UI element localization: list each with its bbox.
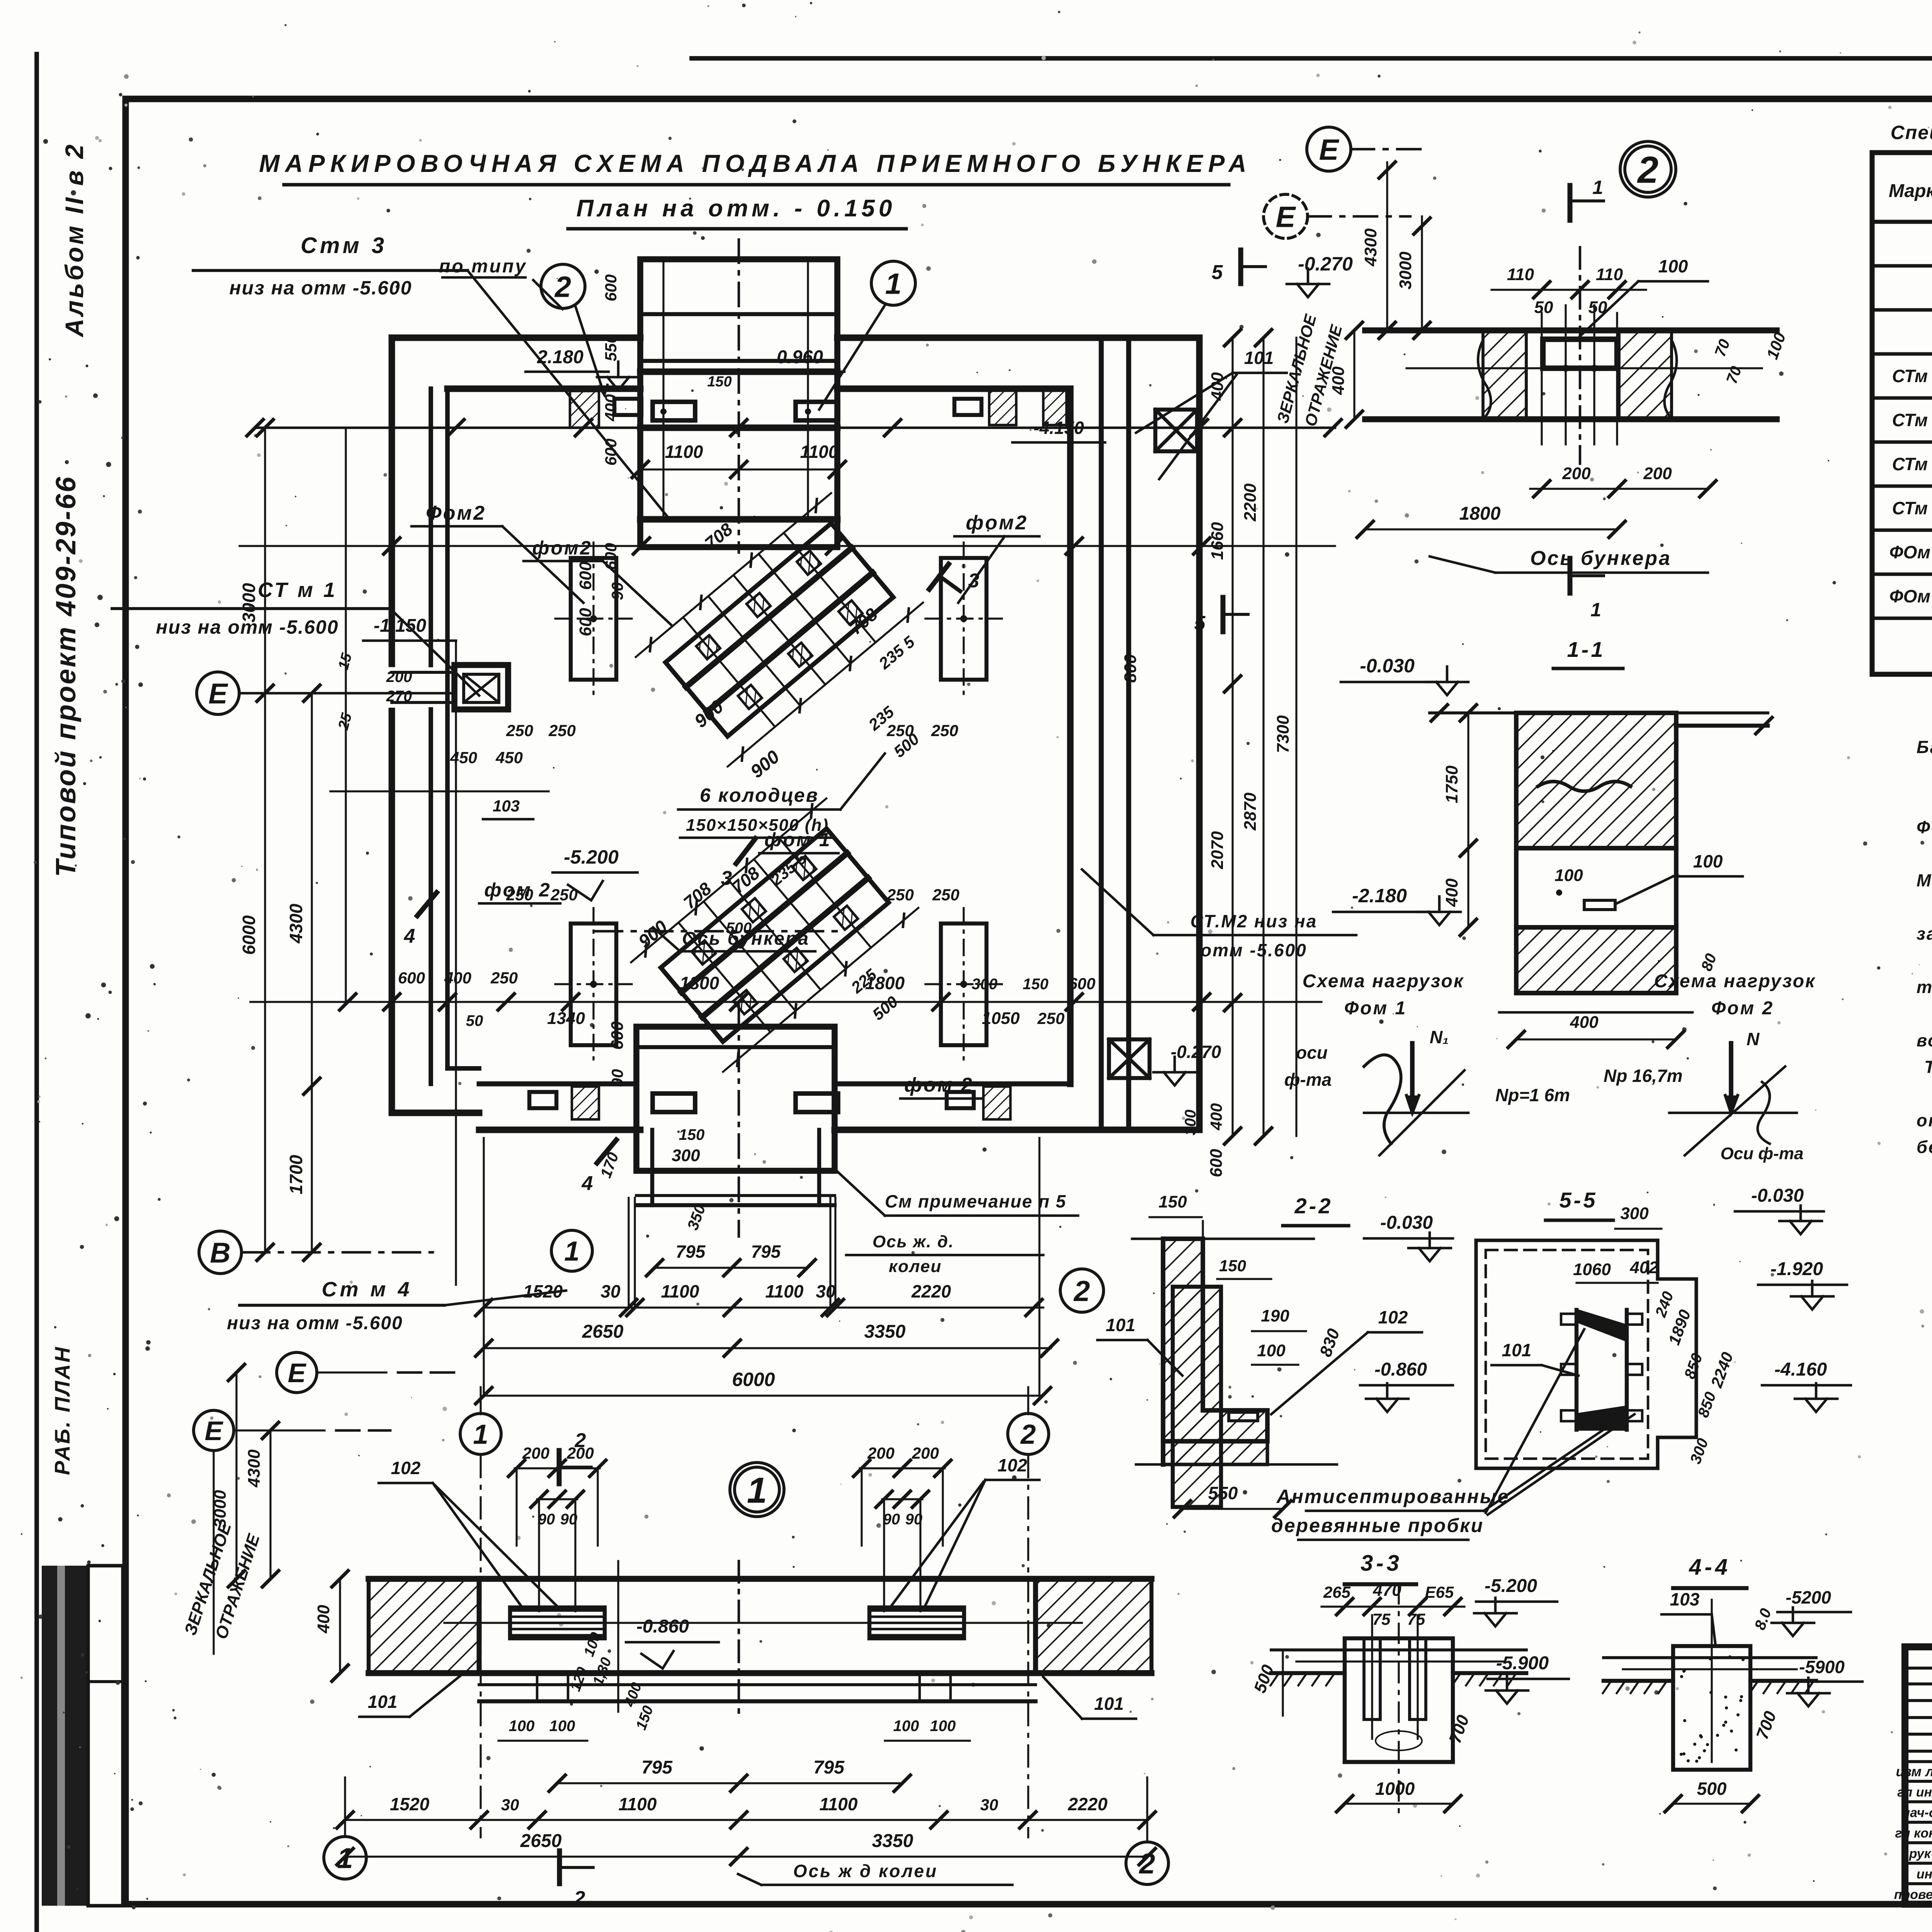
svg-text:СТм 3: СТм 3 — [1892, 454, 1932, 474]
svg-text:1: 1 — [337, 1842, 353, 1874]
svg-text:Фом2: Фом2 — [426, 502, 486, 524]
svg-text:рук гр: рук гр — [1909, 1847, 1932, 1861]
svg-text:101: 101 — [1502, 1340, 1532, 1360]
svg-text:1: 1 — [473, 1420, 488, 1450]
svg-text:1: 1 — [885, 267, 901, 300]
svg-text:250: 250 — [931, 721, 958, 740]
svg-text:250: 250 — [1037, 1009, 1065, 1027]
svg-text:250: 250 — [548, 721, 576, 740]
svg-text:-5.200: -5.200 — [564, 846, 619, 868]
svg-text:5: 5 — [1212, 261, 1223, 284]
svg-text:1060: 1060 — [1573, 1260, 1611, 1279]
svg-text:2: 2 — [1073, 1275, 1090, 1307]
svg-text:100: 100 — [1554, 866, 1583, 885]
svg-text:СТм 1: СТм 1 — [1892, 366, 1932, 386]
svg-text:1100: 1100 — [619, 1794, 657, 1814]
svg-text:30: 30 — [600, 1281, 621, 1301]
svg-text:1100: 1100 — [765, 1281, 804, 1301]
svg-text:250: 250 — [550, 886, 578, 904]
svg-text:Ось ж д колеи: Ось ж д колеи — [793, 1861, 938, 1881]
svg-text:Балок см. лист КЖ-4.: Балок см. лист КЖ-4. — [1917, 737, 1932, 757]
svg-text:Схема нагрузок: Схема нагрузок — [1654, 971, 1816, 992]
svg-text:400: 400 — [1207, 1103, 1225, 1131]
svg-text:2.180: 2.180 — [537, 347, 583, 367]
svg-text:Спецификация элементов к ма: Спецификация элементов к маркировочной с… — [1891, 122, 1932, 143]
svg-text:2220: 2220 — [911, 1281, 951, 1301]
svg-text:Ось бункера: Ось бункера — [1530, 547, 1672, 570]
svg-text:250: 250 — [886, 886, 914, 904]
svg-text:103: 103 — [1670, 1589, 1700, 1609]
svg-text:2: 2 — [1637, 149, 1658, 191]
svg-text:200: 200 — [867, 1444, 895, 1462]
svg-text:300: 300 — [672, 1146, 700, 1165]
svg-text:90: 90 — [608, 582, 626, 600]
svg-text:500: 500 — [1697, 1779, 1727, 1799]
svg-text:4300: 4300 — [1361, 228, 1380, 267]
svg-text:СТм 2: СТм 2 — [1892, 410, 1932, 430]
svg-text:Альбом II в 2: Альбом II в 2 — [60, 142, 88, 338]
svg-text:-5.900: -5.900 — [1496, 1653, 1549, 1673]
svg-text:600: 600 — [576, 608, 595, 636]
svg-text:600: 600 — [576, 561, 595, 590]
svg-text:90: 90 — [608, 1069, 626, 1087]
svg-text:Ст м 4: Ст м 4 — [322, 1278, 413, 1301]
svg-text:2: 2 — [1138, 1848, 1155, 1880]
svg-text:3: 3 — [968, 570, 980, 592]
svg-text:фом 2: фом 2 — [904, 1074, 974, 1096]
svg-text:Е: Е — [205, 1416, 224, 1446]
svg-text:ФОм 2: ФОм 2 — [1889, 586, 1932, 606]
svg-text:нач-отд: нач-отд — [1902, 1806, 1932, 1820]
svg-text:1700: 1700 — [286, 1155, 306, 1194]
svg-text:600: 600 — [608, 1021, 627, 1050]
svg-text:Фом 1 и Фом 2 включены: Фом 1 и Фом 2 включены в спецификацию ча… — [1917, 817, 1932, 837]
svg-text:402: 402 — [1629, 1258, 1658, 1277]
svg-text:500: 500 — [726, 920, 752, 937]
svg-text:300: 300 — [1620, 1204, 1649, 1223]
svg-text:6 колодцев: 6 колодцев — [700, 784, 819, 806]
svg-text:4300: 4300 — [286, 903, 306, 944]
svg-text:Е: Е — [208, 678, 228, 710]
svg-text:за два раза по холод: за два раза по холодной битумной грунтов… — [1917, 924, 1932, 944]
svg-text:4300: 4300 — [245, 1449, 264, 1488]
svg-text:400: 400 — [602, 394, 620, 422]
svg-text:низ на отм -5.600: низ на отм -5.600 — [227, 1313, 403, 1333]
svg-text:-0.030: -0.030 — [1751, 1185, 1804, 1206]
svg-text:Оси ф-та: Оси ф-та — [1721, 1144, 1804, 1163]
svg-text:Е65: Е65 — [1425, 1583, 1454, 1601]
svg-text:1100: 1100 — [665, 442, 703, 462]
svg-text:150×150×500 (h): 150×150×500 (h) — [686, 816, 829, 835]
svg-text:200: 200 — [1562, 464, 1591, 483]
svg-text:тумом.: тумом. — [1917, 977, 1932, 997]
svg-text:2070: 2070 — [1208, 831, 1227, 869]
svg-text:-2.180: -2.180 — [1352, 885, 1407, 906]
svg-text:-5.200: -5.200 — [1485, 1576, 1537, 1596]
svg-text:100: 100 — [1257, 1341, 1286, 1360]
svg-text:М50 толщиной 100 мм.: М50 толщиной 100 мм. — [1917, 871, 1932, 890]
svg-text:ф-та: ф-та — [1284, 1070, 1332, 1090]
svg-text:795: 795 — [751, 1242, 781, 1262]
svg-text:30: 30 — [980, 1796, 998, 1814]
svg-text:250: 250 — [490, 969, 518, 987]
svg-text:1050: 1050 — [982, 1009, 1020, 1028]
svg-text:4: 4 — [404, 925, 415, 947]
svg-text:3: 3 — [721, 867, 732, 889]
svg-text:600: 600 — [398, 969, 425, 987]
svg-text:250: 250 — [886, 721, 914, 740]
svg-text:1: 1 — [1592, 177, 1603, 198]
svg-text:Антисептированные: Антисептированные — [1276, 1486, 1510, 1507]
svg-text:795: 795 — [813, 1757, 845, 1778]
svg-text:100: 100 — [1658, 256, 1688, 276]
svg-text:2: 2 — [554, 270, 571, 303]
svg-text:150: 150 — [1023, 976, 1049, 993]
svg-text:1100: 1100 — [800, 442, 838, 462]
svg-text:100: 100 — [930, 1718, 956, 1735]
svg-text:-4.150: -4.150 — [1034, 418, 1084, 438]
svg-text:План на отм. - 0.150: План на отм. - 0.150 — [577, 195, 896, 222]
svg-text:300: 300 — [972, 976, 998, 993]
svg-text:2650: 2650 — [520, 1831, 562, 1851]
svg-text:470: 470 — [1372, 1581, 1401, 1600]
svg-text:450: 450 — [450, 748, 477, 767]
svg-text:-0.270: -0.270 — [1171, 1042, 1221, 1062]
svg-text:5: 5 — [1194, 612, 1206, 634]
svg-text:колеи: колеи — [889, 1257, 942, 1276]
svg-text:200: 200 — [386, 668, 412, 685]
svg-text:Е: Е — [288, 1358, 307, 1388]
svg-text:110: 110 — [1596, 265, 1623, 284]
svg-text:фом2: фом2 — [532, 537, 592, 559]
svg-text:200: 200 — [522, 1444, 549, 1462]
svg-text:См примечание п 5: См примечание п 5 — [885, 1191, 1066, 1211]
svg-text:Фом 1: Фом 1 — [1344, 998, 1407, 1019]
svg-text:-0.270: -0.270 — [1298, 253, 1353, 275]
svg-text:восприятие горизонтальных: восприятие горизонтальных нагрузок, дейс… — [1917, 1031, 1932, 1050]
svg-text:СТм 4: СТм 4 — [1892, 498, 1932, 518]
svg-text:600: 600 — [602, 543, 620, 570]
svg-text:50: 50 — [466, 1012, 483, 1029]
svg-text:1800: 1800 — [680, 973, 719, 993]
svg-text:800: 800 — [1121, 654, 1140, 683]
svg-text:100: 100 — [1693, 851, 1723, 871]
svg-text:N₁: N₁ — [1430, 1027, 1449, 1047]
svg-text:фом2: фом2 — [966, 512, 1028, 534]
svg-text:270: 270 — [386, 688, 412, 705]
svg-text:795: 795 — [641, 1757, 673, 1778]
svg-text:1800: 1800 — [1459, 503, 1501, 524]
svg-text:600: 600 — [1068, 975, 1095, 993]
svg-text:101: 101 — [1094, 1694, 1124, 1714]
svg-text:1660: 1660 — [1208, 522, 1227, 560]
svg-text:2-2: 2-2 — [1294, 1194, 1333, 1218]
svg-text:0.960: 0.960 — [777, 347, 823, 367]
svg-text:отм -5.600: отм -5.600 — [1201, 940, 1307, 960]
svg-text:Стм 3: Стм 3 — [301, 233, 387, 258]
svg-text:450: 450 — [495, 748, 523, 767]
svg-text:1520: 1520 — [390, 1794, 430, 1814]
svg-text:103: 103 — [493, 797, 520, 815]
svg-text:100: 100 — [893, 1718, 919, 1735]
svg-text:1000: 1000 — [1375, 1779, 1415, 1799]
svg-text:2: 2 — [574, 1887, 585, 1910]
svg-text:100: 100 — [509, 1718, 535, 1735]
svg-text:7300: 7300 — [1274, 715, 1293, 753]
svg-text:265: 265 — [1323, 1583, 1351, 1601]
svg-text:75: 75 — [1407, 1610, 1425, 1628]
svg-text:1100: 1100 — [820, 1794, 858, 1814]
svg-text:90: 90 — [883, 1511, 900, 1528]
svg-text:102: 102 — [1378, 1307, 1408, 1327]
svg-text:СТ м 1: СТ м 1 — [258, 578, 337, 602]
svg-text:100: 100 — [549, 1718, 575, 1735]
svg-text:бетоном пола 70%: бетоном пола 70% проектной прочности. — [1917, 1137, 1932, 1157]
svg-text:инж: инж — [1917, 1867, 1932, 1882]
svg-text:1750: 1750 — [1442, 765, 1461, 803]
svg-text:400: 400 — [444, 969, 471, 987]
svg-text:110: 110 — [1507, 265, 1534, 284]
svg-text:150: 150 — [1158, 1192, 1187, 1211]
svg-text:200: 200 — [1643, 464, 1672, 483]
svg-text:795: 795 — [676, 1242, 706, 1262]
svg-text:-0.860: -0.860 — [1374, 1359, 1427, 1380]
svg-text:3350: 3350 — [864, 1321, 906, 1342]
svg-text:Nр 16,7т: Nр 16,7т — [1604, 1066, 1683, 1086]
svg-text:50: 50 — [1534, 298, 1553, 317]
svg-text:Nр=1 6т: Nр=1 6т — [1495, 1085, 1570, 1105]
svg-text:оси: оси — [1296, 1043, 1328, 1063]
svg-text:Е: Е — [1319, 133, 1340, 166]
svg-text:400: 400 — [1570, 1013, 1599, 1032]
svg-text:изм лист: изм лист — [1896, 1764, 1932, 1779]
svg-text:550: 550 — [602, 334, 620, 361]
svg-text:101: 101 — [1244, 348, 1274, 368]
svg-text:101: 101 — [368, 1692, 398, 1712]
svg-text:-5200: -5200 — [1786, 1587, 1831, 1607]
svg-text:Е: Е — [1276, 201, 1296, 233]
svg-text:СТ.М2 низ на: СТ.М2 низ на — [1190, 911, 1318, 931]
svg-text:окончания замоноличивания: окончания замоноличивания покрытия и пос… — [1917, 1111, 1932, 1130]
svg-text:250: 250 — [506, 886, 533, 904]
svg-text:1340: 1340 — [547, 1009, 585, 1028]
svg-text:В: В — [210, 1237, 230, 1269]
svg-text:250: 250 — [932, 886, 959, 904]
svg-text:Типовой проект 409-29-66: Типовой проект 409-29-66 — [51, 475, 82, 877]
svg-text:400: 400 — [1442, 878, 1461, 907]
svg-text:-1.150: -1.150 — [374, 616, 426, 636]
svg-text:102: 102 — [391, 1458, 421, 1478]
svg-text:Схема нагрузок: Схема нагрузок — [1303, 971, 1464, 992]
svg-text:5-5: 5-5 — [1560, 1188, 1598, 1212]
svg-text:150: 150 — [1219, 1257, 1246, 1275]
svg-text:-0.860: -0.860 — [636, 1616, 689, 1637]
svg-text:2: 2 — [1020, 1420, 1036, 1450]
svg-text:ФОм 1: ФОм 1 — [1889, 542, 1932, 562]
svg-text:N: N — [1747, 1029, 1760, 1049]
svg-text:200: 200 — [566, 1444, 594, 1462]
svg-text:1100: 1100 — [661, 1281, 699, 1301]
svg-text:30: 30 — [816, 1281, 836, 1301]
svg-text:РАБ. ПЛАН: РАБ. ПЛАН — [50, 1345, 74, 1475]
svg-text:по типу: по типу — [439, 256, 527, 277]
svg-text:4-4: 4-4 — [1689, 1554, 1731, 1580]
svg-text:3000: 3000 — [1396, 252, 1415, 289]
svg-text:-5900: -5900 — [1799, 1657, 1845, 1677]
svg-text:4: 4 — [582, 1172, 593, 1195]
svg-text:низ на отм -5.600: низ на отм -5.600 — [229, 277, 412, 299]
svg-text:низ на отм -5.600: низ на отм -5.600 — [156, 616, 338, 638]
svg-text:Ось ж. д.: Ось ж. д. — [872, 1232, 954, 1251]
svg-text:75: 75 — [1372, 1610, 1391, 1628]
svg-text:-4.160: -4.160 — [1774, 1359, 1827, 1380]
svg-text:2220: 2220 — [1068, 1794, 1108, 1814]
svg-text:1: 1 — [747, 1470, 767, 1510]
svg-text:деревянные пробки: деревянные пробки — [1271, 1515, 1484, 1536]
svg-text:300: 300 — [1182, 1110, 1199, 1136]
svg-text:3-3: 3-3 — [1361, 1551, 1402, 1576]
svg-text:1-1: 1-1 — [1567, 637, 1605, 662]
svg-text:-0.030: -0.030 — [1380, 1213, 1433, 1233]
svg-text:250: 250 — [506, 721, 533, 740]
svg-text:90: 90 — [538, 1511, 555, 1528]
svg-text:Марка: Марка — [1889, 181, 1932, 201]
svg-text:6000: 6000 — [732, 1369, 775, 1390]
svg-text:гл инж пр: гл инж пр — [1897, 1785, 1932, 1800]
svg-text:проверила: проверила — [1894, 1888, 1932, 1902]
svg-text:гл констр: гл констр — [1895, 1826, 1932, 1841]
svg-text:200: 200 — [912, 1444, 939, 1462]
svg-text:3350: 3350 — [872, 1831, 913, 1851]
svg-text:6000: 6000 — [239, 915, 259, 955]
svg-text:101: 101 — [1106, 1315, 1136, 1335]
svg-text:2200: 2200 — [1241, 483, 1260, 522]
svg-text:150: 150 — [707, 374, 731, 390]
svg-text:400: 400 — [314, 1605, 333, 1634]
svg-text:МАРКИРОВОЧНАЯ СХЕМА ПОДВАЛ: МАРКИРОВОЧНАЯ СХЕМА ПОДВАЛА ПРИЕМНОГО БУ… — [259, 150, 1252, 177]
svg-text:2870: 2870 — [1241, 793, 1260, 831]
svg-text:150: 150 — [679, 1126, 705, 1143]
svg-text:-0.030: -0.030 — [1360, 655, 1415, 677]
svg-text:600: 600 — [602, 439, 620, 466]
svg-text:600: 600 — [1207, 1149, 1226, 1177]
svg-text:3000: 3000 — [211, 1490, 230, 1528]
svg-text:1: 1 — [564, 1236, 580, 1267]
svg-text:2650: 2650 — [582, 1321, 624, 1342]
svg-text:30: 30 — [501, 1796, 519, 1814]
svg-text:-1.920: -1.920 — [1770, 1259, 1823, 1279]
svg-text:Толщину пола приня: Толщину пола принять 150 мм из бетона м2… — [1924, 1057, 1932, 1077]
svg-text:190: 190 — [1261, 1306, 1289, 1325]
svg-text:102: 102 — [998, 1455, 1027, 1475]
svg-text:Фом 2: Фом 2 — [1711, 998, 1774, 1019]
svg-text:1: 1 — [1590, 599, 1601, 621]
svg-text:600: 600 — [602, 274, 620, 301]
